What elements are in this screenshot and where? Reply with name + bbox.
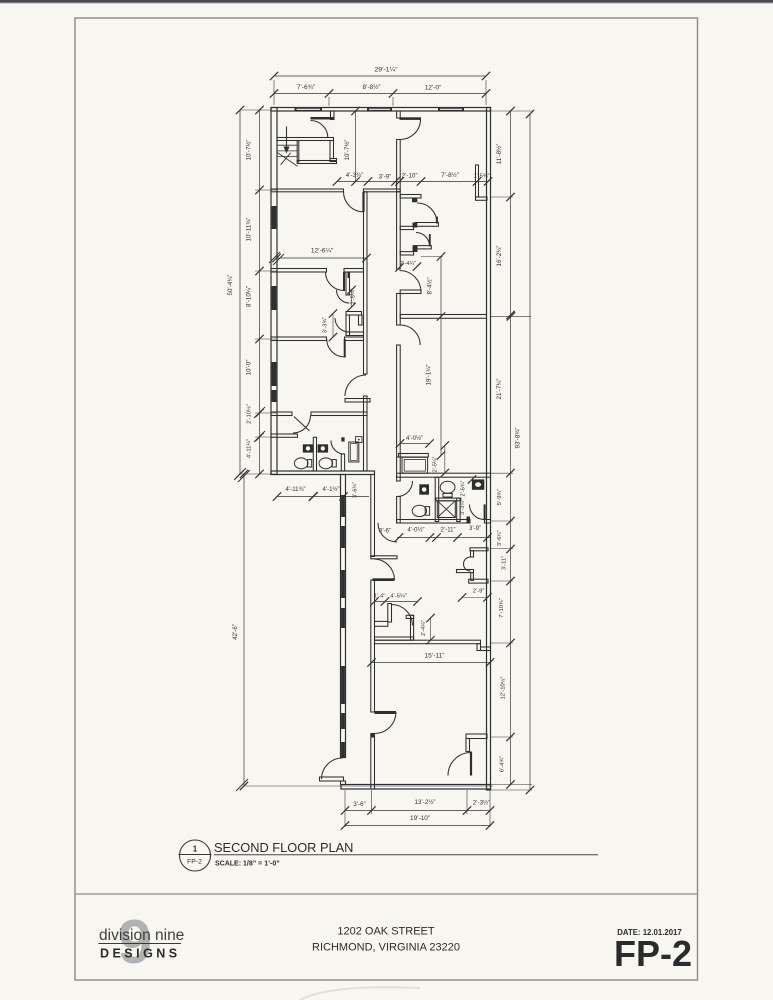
break mark bottom-left corner y785: [236, 779, 248, 791]
lavatory sink right: [318, 444, 329, 452]
svg-text:nine: nine: [155, 927, 184, 944]
dim ext verticals outer top: [274, 80, 486, 105]
dim text 8-8: [362, 83, 380, 91]
window in left wall y362: [272, 362, 277, 386]
dim text 1-5: [474, 174, 490, 180]
dim text 19-10: [410, 815, 430, 822]
svg-text:FP-2: FP-2: [614, 933, 692, 974]
interior wall room divider y269: [271, 269, 364, 273]
dim ticks 2-4a: [395, 262, 421, 271]
svg-text:7’-6¾”: 7’-6¾”: [297, 84, 315, 91]
door D2 swing: [344, 192, 364, 212]
door D6 leaf: [294, 417, 310, 432]
drawing title bubble circle: [179, 840, 212, 871]
interior wall room divider y337: [271, 337, 364, 341]
dim text 2-5b rotated: [433, 456, 439, 472]
window in south-wing left wall y666: [341, 666, 345, 704]
door D3 swing: [345, 375, 366, 396]
dim text 19-1 rotated: [426, 365, 433, 386]
exterior wall left side of north wing: [271, 108, 277, 475]
exit door D20 swing at bottom-left: [322, 758, 343, 779]
dim text 7-6: [297, 84, 315, 91]
dim text 3-3b rotated: [460, 499, 466, 515]
dim text 50-4: [227, 275, 234, 296]
door D11 swing: [417, 203, 437, 223]
svg-text:4’-11¾”: 4’-11¾”: [286, 487, 306, 493]
svg-text:3’-11”: 3’-11”: [502, 556, 508, 570]
logo division nine text: [99, 927, 184, 944]
wall between top rooms: [397, 111, 401, 192]
cross wall y641: [375, 640, 491, 650]
svg-text:2’-6¾”: 2’-6¾”: [461, 480, 467, 496]
date note: [617, 928, 681, 937]
door D4 swing: [326, 272, 345, 291]
title block divider line: [75, 893, 698, 895]
svg-text:2’-5¼”: 2’-5¼”: [433, 456, 439, 472]
door D12 leaf: [429, 234, 431, 246]
break mark left chain y474: [234, 468, 250, 482]
window W3 in top wall: [438, 107, 464, 111]
door D13 swing: [470, 505, 485, 520]
office partition wall H: [400, 252, 413, 255]
exterior wall right side of building: [487, 108, 491, 791]
dim text 11-8 rotated: [496, 144, 503, 165]
restroom stall partition: [313, 437, 316, 471]
logo large grey nine: [118, 908, 152, 977]
door D7 swing: [331, 441, 345, 455]
office partition wall F: [400, 226, 413, 229]
dim text 2-11: [441, 528, 456, 534]
dim text 2-4b rotated: [421, 620, 427, 636]
svg-text:10’-7½”: 10’-7½”: [344, 140, 351, 161]
svg-text:4’-11¼”: 4’-11¼”: [247, 439, 253, 458]
dim text 6-4 rotated: [500, 756, 506, 773]
corridor wall west segments: [397, 192, 401, 523]
door D2 leaf: [362, 192, 364, 212]
stair enclosure top wall: [277, 138, 334, 141]
svg-text:42’-6”: 42’-6”: [232, 624, 239, 640]
dim text 16-2 rotated: [496, 246, 503, 267]
svg-text:SECOND FLOOR PLAN: SECOND FLOOR PLAN: [214, 840, 353, 855]
double tick bath row x313: [309, 492, 318, 501]
window in left wall y206: [272, 206, 277, 229]
interior wall right side of north wing: [364, 192, 368, 471]
stair tread divider wall: [297, 141, 299, 163]
dim text 5-9 rotated: [497, 489, 503, 506]
svg-text:7’-8½”: 7’-8½”: [441, 172, 459, 179]
svg-text:10’-11¾”: 10’-11¾”: [246, 218, 253, 242]
window W1 in top wall: [295, 107, 323, 111]
door D19 swing: [448, 753, 471, 776]
dim ext line wall y316 to right chain: [491, 312, 532, 320]
svg-text:FP-2: FP-2: [187, 859, 202, 866]
door D13 jamb: [467, 517, 471, 523]
svg-text:2’-10”: 2’-10”: [402, 173, 418, 180]
door D8 swing: [397, 481, 413, 497]
svg-text:3’-6”: 3’-6”: [353, 801, 365, 808]
door D19 leaf: [470, 752, 472, 776]
exterior wall bottom of building: [341, 785, 491, 790]
address line 1: [337, 926, 434, 938]
dim line 3-3: [329, 309, 337, 341]
svg-text:8’-10¼”: 8’-10¼”: [246, 286, 253, 307]
dim text 2-10b: [246, 404, 253, 424]
dim text 2-5a rotated: [351, 288, 357, 304]
svg-text:1’-5¾”: 1’-5¾”: [474, 174, 490, 180]
closet bottom wall 2-10: [271, 434, 298, 437]
svg-text:10’-0”: 10’-0”: [246, 360, 253, 376]
closet door swing upper: [337, 290, 350, 303]
stair treads: [277, 145, 298, 156]
svg-text:5’-9¾”: 5’-9¾”: [497, 489, 503, 506]
dim text 29-1: [374, 67, 398, 74]
door D1 header top-left room: [311, 111, 335, 120]
address line 2: [312, 942, 460, 954]
dim line 29-1: [270, 72, 490, 80]
stair landing wall: [330, 141, 334, 159]
door D18 swing: [392, 605, 413, 626]
svg-text:2’-11”: 2’-11”: [441, 528, 456, 534]
svg-text:1’-4”: 1’-4”: [374, 594, 385, 600]
svg-text:15’-11”: 15’-11”: [424, 653, 444, 660]
dim line 2-5b: [441, 441, 449, 477]
dim text 8-10: [246, 286, 253, 307]
svg-text:3’-3¾”: 3’-3¾”: [323, 317, 329, 334]
dim text 4-5: [390, 594, 407, 600]
cross wall y520: [397, 520, 491, 524]
dim text 3-9b: [469, 526, 481, 532]
svg-text:10’-7½”: 10’-7½”: [246, 140, 253, 161]
svg-text:2’-10½”: 2’-10½”: [246, 404, 253, 424]
svg-text:16’-2¼”: 16’-2¼”: [496, 246, 503, 267]
svg-text:2’-3½”: 2’-3½”: [473, 800, 491, 807]
svg-text:13’-2½”: 13’-2½”: [415, 799, 436, 806]
drawing title bubble sheet FP-2: [187, 859, 202, 866]
nook door swing: [464, 557, 471, 571]
dim line 8-4 and 19-1: [437, 252, 445, 459]
cross wall y473: [397, 473, 491, 477]
window in south-wing left wall y608: [341, 608, 345, 628]
dim text 1-4: [374, 594, 385, 600]
svg-text:SCALE: 1/8” = 1’-0”: SCALE: 1/8” = 1’-0”: [215, 861, 280, 868]
sheet number FP-2: [614, 933, 692, 974]
dim ext stubs left: [240, 110, 277, 474]
dim line 2-4b: [426, 614, 434, 645]
break mark on left wall y257: [269, 252, 284, 265]
drawing scale note: [215, 861, 280, 868]
door D17 leaf: [375, 711, 397, 714]
interior wall below stair room: [271, 189, 400, 192]
window in left wall y286: [272, 286, 277, 310]
door D21 leaf top rooms: [400, 117, 422, 120]
svg-text:4’-0½”: 4’-0½”: [406, 435, 423, 442]
dim line top row2: [270, 89, 490, 97]
svg-text:7’-10¾”: 7’-10¾”: [499, 598, 505, 618]
closet walls near y620: [375, 604, 414, 641]
dim text 3-6d: [353, 801, 365, 808]
logo DESIGNS text: [100, 947, 177, 961]
dim text 21-7 rotated: [496, 379, 503, 400]
exterior wall bottom of north wing: [271, 471, 375, 475]
door D6 swing: [293, 416, 311, 434]
dim line left outer 50-4: [236, 106, 244, 478]
stub wall y556: [371, 556, 397, 559]
svg-text:2’-9”: 2’-9”: [473, 589, 485, 595]
dim text 8-4 rotated: [427, 277, 434, 294]
dim line corridor row y537: [395, 533, 492, 541]
dim text 3-3 rotated: [323, 317, 329, 334]
hall stub wall: [345, 399, 370, 403]
svg-text:50’-4¼”: 50’-4¼”: [227, 275, 234, 296]
dim line 2-5a: [347, 286, 355, 311]
dim line bottom row1: [341, 806, 494, 814]
dim text 3-6b: [379, 529, 391, 535]
svg-text:6’-4¾”: 6’-4¾”: [500, 756, 506, 773]
dim text 2-3: [473, 800, 491, 807]
dim text 13-2: [415, 799, 436, 806]
svg-text:3’-6¾”: 3’-6¾”: [353, 482, 359, 498]
window in south-wing left wall y713: [341, 713, 345, 729]
logo underline: [99, 943, 182, 945]
svg-text:2’-4¼”: 2’-4¼”: [421, 620, 427, 636]
dim ext line building bottom face: [245, 785, 493, 787]
door D5 leaf: [344, 339, 346, 358]
shaft box with X: [437, 501, 455, 518]
closet wall y453: [399, 454, 429, 458]
svg-text:12’-6¼”: 12’-6¼”: [311, 248, 333, 255]
door D17 jamb: [371, 734, 375, 738]
svg-text:8’-4½”: 8’-4½”: [427, 277, 434, 294]
dim text 12-6: [311, 248, 333, 255]
closet box: [402, 457, 428, 473]
stair break line: [277, 152, 298, 166]
exterior door stoop wall bottom-left: [320, 777, 346, 785]
stair landing step wall: [330, 159, 337, 162]
window in south-wing left wall y495: [341, 495, 345, 517]
svg-text:division: division: [99, 927, 151, 944]
door D12 swing: [416, 233, 430, 247]
dim ext stubs right: [491, 111, 533, 790]
drawing title underline: [214, 854, 598, 856]
dim line 15-11: [367, 658, 494, 666]
svg-text:4’-1½”: 4’-1½”: [322, 486, 339, 493]
dim text 2-6 rotated: [461, 480, 467, 496]
dim text 3-9a: [379, 174, 391, 181]
dim line 4-0a: [396, 439, 434, 447]
svg-text:RICHMOND, VIRGINIA 23220: RICHMOND, VIRGINIA 23220: [312, 942, 460, 954]
svg-text:4’-3¾”: 4’-3¾”: [346, 172, 364, 179]
dim line right outer chain: [526, 110, 534, 794]
drawing title SECOND FLOOR PLAN: [214, 840, 353, 855]
exterior wall top of building: [271, 108, 491, 112]
toilet right: [319, 458, 336, 469]
office partition wall D: [400, 195, 421, 203]
dim text 42-6: [232, 624, 239, 640]
svg-text:8’-8½”: 8’-8½”: [362, 83, 380, 91]
dim text 3-6a rotated: [353, 482, 359, 498]
wc sink lower-right: [472, 479, 484, 489]
svg-text:19’-1¼”: 19’-1¼”: [426, 365, 433, 386]
faint scan crease artifact bottom centre: [300, 987, 420, 1000]
dim text 12-10 rotated: [500, 676, 507, 699]
office partition wall E: [413, 223, 439, 228]
stair up-arrow: [283, 127, 289, 154]
door D11 leaf: [436, 217, 438, 224]
dim line bath row: [273, 492, 369, 500]
dim line left inner chain: [255, 106, 263, 478]
restroom right wall: [341, 437, 344, 471]
svg-text:12’-10½”: 12’-10½”: [500, 676, 507, 699]
door D13 leaf: [484, 504, 486, 519]
dim text 7-10 rotated: [499, 598, 505, 618]
control box with dot: [356, 437, 362, 443]
door D16 leaf: [373, 578, 395, 581]
shaft right wall: [457, 498, 460, 521]
door D21 swing: [400, 120, 420, 140]
svg-text:19’-10”: 19’-10”: [410, 815, 430, 822]
window in south-wing left wall y570: [341, 570, 345, 598]
dim line y181: [333, 177, 492, 185]
wall stub y290: [400, 290, 421, 294]
drawing title bubble number 1: [193, 845, 198, 854]
wc partition wall: [435, 477, 439, 521]
dim tick 2-6: [468, 475, 476, 483]
exterior wall left side of south wing: [341, 475, 346, 758]
dim line left outer 42-6: [240, 470, 248, 790]
svg-text:4’-5¼”: 4’-5¼”: [390, 594, 407, 600]
door D4 leaf: [343, 272, 345, 291]
toilet left: [294, 458, 311, 469]
dim text 2-9: [473, 589, 485, 595]
dim text 10-7 right: [344, 140, 351, 161]
svg-text:3’-6¾”: 3’-6¾”: [497, 530, 503, 546]
dim text 4-1: [322, 486, 339, 493]
dim text 10-0: [246, 360, 253, 376]
nook wall top-right 1-5: [476, 165, 488, 200]
svg-text:4’-0½”: 4’-0½”: [407, 527, 424, 534]
dim text 3-6c rotated: [497, 530, 503, 546]
window in south-wing left wall y742: [341, 742, 345, 757]
door D16 swing: [374, 559, 395, 580]
wc toilet middle: [440, 481, 455, 497]
entry nook walls east: [457, 548, 489, 583]
dim text 93-8 rotated: [515, 428, 522, 449]
wc sink upper: [419, 484, 429, 494]
svg-text:1202 OAK STREET: 1202 OAK STREET: [337, 926, 434, 938]
door D4 jamb: [348, 272, 351, 278]
dim line bottom row2: [341, 821, 494, 829]
svg-text:21’-7¼”: 21’-7¼”: [496, 379, 503, 400]
lavatory sink left: [303, 444, 314, 452]
dim line right inner chain: [506, 107, 514, 789]
window W2 in top wall: [367, 107, 392, 111]
dim text 4-11a: [247, 439, 253, 458]
dim text 7-8: [441, 172, 459, 179]
svg-text:3’-3¾”: 3’-3¾”: [460, 499, 466, 515]
dim line 12-6: [272, 254, 370, 262]
scanner edge dark line at top of page: [0, 0, 773, 3]
window in left wall y390: [272, 390, 277, 402]
svg-text:93’-8¾”: 93’-8¾”: [515, 428, 522, 449]
shaft top wall: [436, 498, 461, 501]
dim text 2-10: [402, 173, 418, 180]
wc toilet left: [412, 505, 429, 516]
dim text 4-0b: [407, 527, 424, 534]
svg-text:D E S I G N S: D E S I G N S: [100, 947, 177, 961]
dim text 12-0: [425, 85, 441, 92]
svg-text:3’-9”: 3’-9”: [469, 526, 481, 532]
dim text 2-4a: [400, 261, 416, 267]
window in south-wing left wall y526: [341, 526, 345, 548]
dim ext 8-4 top stub: [421, 256, 443, 258]
dim text 4-0a: [406, 435, 423, 442]
dim line 2-9: [458, 593, 492, 601]
svg-text:12’-0”: 12’-0”: [425, 85, 441, 92]
svg-text:29’-1¼”: 29’-1¼”: [374, 67, 398, 74]
door D17 swing: [375, 712, 397, 734]
closet walls bottom-right: [466, 734, 487, 752]
svg-text:3’-9”: 3’-9”: [379, 174, 391, 181]
office partition wall G: [413, 246, 432, 252]
door D1 swing: [311, 121, 328, 138]
cross wall y314 of east wing: [400, 315, 486, 319]
shower fixture: [349, 442, 359, 462]
dim ext verticals bottom: [345, 790, 490, 827]
dim text 10-11: [246, 218, 253, 242]
door D14 swing: [378, 523, 397, 542]
dim text 4-3: [346, 172, 364, 179]
dim ext verticals row2: [329, 97, 393, 106]
dim line 10-7 right vertical: [351, 107, 359, 186]
door D9 swing: [400, 271, 422, 293]
dim text 15-11: [424, 653, 444, 660]
dim text 4-11b: [286, 487, 306, 493]
stair enclosure bottom wall: [297, 161, 336, 164]
sheet border frame: [75, 18, 698, 980]
dim text 3-11 rotated: [502, 556, 508, 570]
door D10 swing: [400, 325, 420, 345]
break mark left chain y413-437: [254, 407, 265, 442]
door D5 swing: [327, 339, 345, 357]
south wing interior wall west: [371, 475, 375, 790]
closet door swing lower: [335, 318, 349, 332]
interior wall y412 with closet: [271, 412, 367, 416]
dim line y601: [370, 597, 421, 605]
dim text 10-7 left: [246, 140, 253, 161]
svg-text:1: 1: [193, 845, 198, 854]
closet cluster walls between rooms: [346, 272, 364, 336]
svg-text:3’-6”: 3’-6”: [379, 529, 391, 535]
svg-text:11’-8½”: 11’-8½”: [496, 144, 503, 165]
